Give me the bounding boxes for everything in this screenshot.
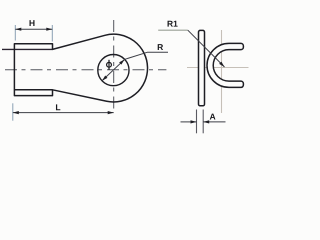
centerline horizontal (left view) [5, 69, 166, 71]
A dimension line right [203, 121, 225, 123]
centerline vertical (left view) [113, 20, 115, 112]
L arrow left [13, 111, 19, 114]
phi symbol [107, 60, 112, 70]
faint vertical centerline right view [221, 30, 223, 113]
hole circle [98, 55, 129, 86]
H extension line left [14, 25, 16, 41]
faint horizontal centerline right view [187, 67, 249, 69]
A dimension line left [181, 121, 197, 123]
A extension line left [196, 110, 198, 134]
label H [30, 20, 35, 26]
R1 arrowhead [219, 62, 224, 67]
wire seam line [2, 48, 53, 50]
A arrow left [191, 120, 197, 123]
ring edge view bar [199, 30, 205, 105]
R1 leader diagonal [188, 30, 225, 67]
H dimension line [15, 28, 52, 30]
phi diameter line + R leader [102, 52, 168, 81]
bent tab C-section [207, 43, 243, 87]
R1 leader landing [158, 29, 188, 31]
L extension line [12, 103, 14, 120]
phi arrow lower [102, 76, 107, 81]
H arrow left [15, 28, 21, 31]
phi arrow upper [119, 59, 124, 64]
A extension line right [202, 110, 204, 134]
label R [158, 44, 163, 50]
label A [210, 114, 216, 120]
part outline left view [14, 34, 147, 102]
L arrow right [108, 111, 114, 114]
L dimension line [13, 112, 114, 114]
A arrow right [203, 120, 209, 123]
label R1 [168, 21, 178, 27]
label L [56, 104, 60, 110]
H arrow right [46, 28, 52, 31]
H extension line right [51, 25, 53, 42]
